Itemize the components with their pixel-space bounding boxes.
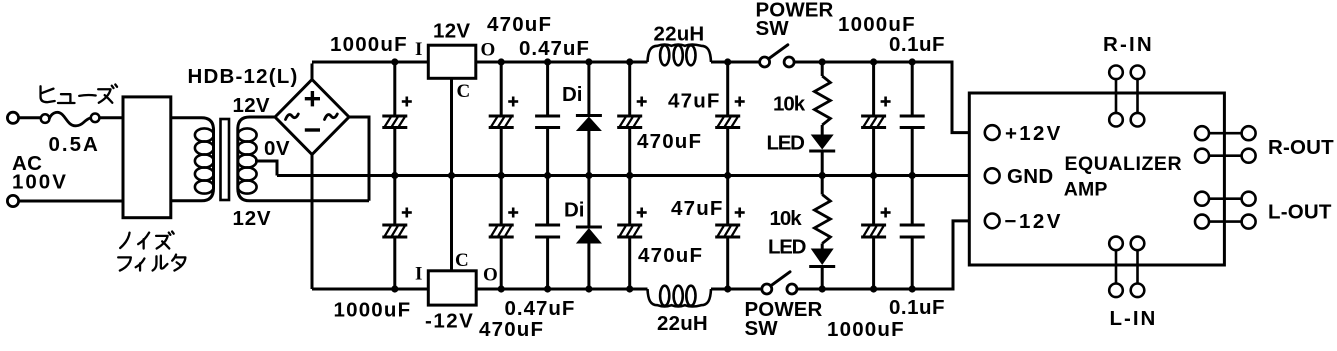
svg-text:LED: LED [768, 236, 806, 259]
inductor L2 22uH [648, 289, 712, 307]
svg-text:470uF: 470uF [637, 130, 702, 153]
svg-text:0.5A: 0.5A [49, 133, 100, 156]
svg-text:1000uF: 1000uF [330, 33, 408, 56]
junction on GND rail at x=727.7 [724, 172, 731, 179]
svg-text:1000uF: 1000uF [827, 318, 905, 341]
svg-text:SW: SW [756, 17, 790, 40]
resistor R2 10k [821, 176, 824, 195]
svg-text:I: I [415, 264, 422, 285]
noise filter box [123, 97, 171, 218]
junction on GND rail at x=394.8 [391, 172, 398, 179]
svg-text:R-OUT: R-OUT [1268, 136, 1334, 159]
junction on +12V rail at x=873.6 [870, 58, 877, 65]
junction on -12V rail at x=822.2 [819, 285, 826, 292]
regulator U2 -12V [428, 271, 476, 305]
svg-text:+12V: +12V [1005, 122, 1063, 145]
junction on -12V rail at x=629.7 [626, 285, 633, 292]
svg-text:C: C [455, 250, 469, 271]
svg-text:EQUALIZER: EQUALIZER [1065, 153, 1183, 175]
junction on +12V rail at x=394.8 [391, 58, 398, 65]
wire bridge bottom to -rail [311, 155, 314, 290]
R-IN connector [1115, 79, 1118, 113]
+12V raw top rail [312, 61, 428, 64]
switch POWER SW upper [760, 57, 770, 67]
junction on +12V rail at x=727.7 [724, 58, 731, 65]
junction on +12V rail at x=912.2 [909, 58, 916, 65]
junction on +12V rail at x=822.2 [819, 58, 826, 65]
wire [99, 116, 123, 119]
capacitor C14 0.1uF [911, 176, 914, 226]
svg-text:HDB-12(L): HDB-12(L) [188, 65, 299, 88]
junction on GND rail at x=822.2 [819, 172, 826, 179]
AC input terminal upper [7, 112, 18, 123]
svg-text:10k: 10k [773, 93, 806, 116]
fuse F 0.5A [41, 114, 50, 123]
junction on GND rail at x=912.2 [909, 172, 916, 179]
svg-text:C: C [457, 81, 471, 102]
L-IN connector [1115, 250, 1118, 284]
svg-text:47uF: 47uF [671, 197, 724, 220]
-12V raw bottom rail [312, 288, 428, 291]
capacitor C6 1000uF [872, 62, 875, 116]
junction on -12V rail at x=501.2 [498, 285, 505, 292]
svg-text:0.47uF: 0.47uF [505, 297, 576, 320]
diode Di lower [587, 176, 590, 228]
svg-text:GND: GND [1007, 165, 1053, 188]
svg-text:-12V: -12V [425, 310, 474, 333]
svg-text:Di: Di [562, 83, 583, 106]
svg-text:LED: LED [767, 132, 805, 155]
regulator U1 12V [428, 45, 476, 78]
capacitor C12 47uF [726, 176, 729, 226]
capacitor C8 1000uF [393, 176, 396, 226]
svg-text:470uF: 470uF [479, 318, 544, 341]
svg-text:12V: 12V [233, 207, 272, 230]
svg-text:22uH: 22uH [654, 23, 705, 46]
capacitor C3 0.47uF [546, 62, 549, 116]
GND mid rail [277, 174, 985, 177]
capacitor C2 470uF [500, 62, 503, 116]
svg-text:0.1uF: 0.1uF [889, 33, 945, 56]
junction on GND rail at x=588.9 [585, 172, 592, 179]
junction on +12V rail at x=501.2 [498, 58, 505, 65]
wire secondary lower tap to bridge right vertex [349, 117, 369, 201]
junction on -12V rail at x=912.2 [909, 285, 916, 292]
svg-text:100V: 100V [12, 171, 68, 194]
svg-text:O: O [481, 40, 496, 61]
0V centre tap wire [255, 161, 277, 176]
junction on -12V rail at x=588.9 [585, 285, 592, 292]
capacitor C4 470uF [628, 62, 631, 116]
switch POWER SW lower [762, 284, 772, 294]
svg-text:−12V: −12V [1005, 210, 1063, 233]
svg-text:0V: 0V [264, 137, 290, 160]
junction on GND rail at x=629.7 [626, 172, 633, 179]
junction on GND rail at x=501.2 [498, 172, 505, 179]
svg-text:I: I [415, 39, 422, 60]
capacitor C10 0.47uF [546, 176, 549, 226]
AC input terminal lower [7, 195, 18, 206]
diode Di upper [587, 62, 590, 116]
resistor R1 10k [821, 62, 824, 76]
svg-text:10k: 10k [770, 207, 803, 230]
svg-text:SW: SW [745, 317, 779, 340]
svg-text:1000uF: 1000uF [334, 299, 412, 322]
svg-text:22uH: 22uH [657, 312, 708, 335]
junction on +12V rail at x=629.7 [626, 58, 633, 65]
junction on GND rail at x=451.5 [448, 172, 455, 179]
svg-text:AMP: AMP [1064, 179, 1108, 201]
svg-text:0.47uF: 0.47uF [519, 37, 590, 60]
label fuse (katakana hyuzu) [41, 86, 55, 102]
svg-text:12V: 12V [233, 94, 270, 117]
GND terminal [985, 168, 1000, 183]
capacitor C7 0.1uF [911, 62, 914, 116]
svg-text:L-OUT: L-OUT [1268, 201, 1332, 224]
capacitor C1 1000uF [393, 62, 396, 116]
bridge rectifier [275, 80, 349, 155]
junction on +12V rail at x=547.6 [544, 58, 551, 65]
svg-text:470uF: 470uF [487, 13, 552, 36]
junction on +12V rail at x=588.9 [585, 58, 592, 65]
transformer secondary winding [238, 117, 369, 201]
-12V terminal [985, 214, 1000, 229]
label noise filter (katakana noizu / firuta) [120, 233, 129, 248]
transformer T1 HDB-12(L) primary winding [171, 118, 214, 201]
svg-text:R-IN: R-IN [1103, 33, 1154, 56]
svg-text:L-IN: L-IN [1110, 307, 1158, 330]
capacitor C9 470uF [500, 176, 503, 226]
junction on GND rail at x=547.6 [544, 172, 551, 179]
wire [19, 200, 124, 203]
junction on -12V rail at x=727.7 [724, 285, 731, 292]
junction on GND rail at x=873.6 [870, 172, 877, 179]
wire [19, 116, 42, 119]
svg-text:O: O [483, 265, 498, 286]
transformer core [221, 119, 230, 200]
EQUALIZER AMP box [969, 93, 1224, 265]
svg-text:47uF: 47uF [668, 90, 721, 113]
R-OUT connector [1209, 132, 1242, 135]
capacitor C5 47uF [726, 62, 729, 116]
junction on -12V rail at x=873.6 [870, 285, 877, 292]
L-OUT connector [1209, 197, 1242, 200]
wire bridge top to +rail [311, 64, 314, 80]
LED LED2 [821, 244, 824, 249]
inductor L1 22uH [648, 45, 712, 63]
svg-text:Di: Di [564, 199, 585, 222]
junction on -12V rail at x=394.8 [391, 285, 398, 292]
capacitor C13 1000uF [872, 176, 875, 226]
capacitor C11 470uF [628, 176, 631, 226]
svg-text:470uF: 470uF [638, 244, 703, 267]
svg-text:12V: 12V [433, 20, 470, 43]
+12V terminal [985, 125, 1000, 140]
svg-text:0.1uF: 0.1uF [889, 296, 945, 319]
LED LED1 [821, 125, 824, 135]
junction on -12V rail at x=547.6 [544, 285, 551, 292]
